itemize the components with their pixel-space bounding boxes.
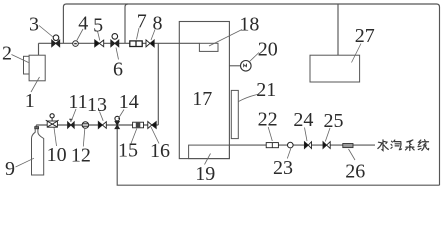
svg-text:2: 2 <box>2 42 12 64</box>
svg-text:17: 17 <box>192 88 212 110</box>
check valve 24 <box>304 142 311 149</box>
svg-text:23: 23 <box>273 157 293 179</box>
svg-text:20: 20 <box>258 39 278 61</box>
check valve 25 <box>323 142 330 149</box>
leader label 24 <box>305 128 308 142</box>
leader label 20 <box>249 53 259 63</box>
gas cylinder 9 <box>32 125 44 175</box>
svg-text:21: 21 <box>256 79 276 101</box>
apparatus 2 <box>24 56 32 74</box>
pressure gauge 20 <box>241 61 252 72</box>
leader label 14 <box>118 110 124 120</box>
svg-text:10: 10 <box>47 144 67 166</box>
condenser 27 <box>310 55 360 82</box>
valve 8 <box>146 40 154 47</box>
sight glass 4 <box>73 41 79 47</box>
label water-steam system <box>378 140 429 151</box>
leader label 25 <box>325 128 330 142</box>
wire stub from box 1 <box>38 43 40 55</box>
leader label 7 <box>137 28 140 40</box>
svg-text:15: 15 <box>118 139 138 161</box>
wire bottom return line <box>117 125 439 185</box>
glyph shui (water) <box>378 140 388 151</box>
svg-text:22: 22 <box>258 109 278 131</box>
svg-text:7: 7 <box>137 11 147 33</box>
flow element 22 <box>266 143 278 148</box>
svg-text:24: 24 <box>293 109 313 131</box>
svg-text:19: 19 <box>195 163 215 185</box>
leader label 27 <box>352 44 362 63</box>
svg-text:5: 5 <box>93 14 103 36</box>
leader label 15 <box>131 129 137 144</box>
leader label 9 <box>16 158 35 167</box>
valve 13 <box>98 122 106 129</box>
wire top vent bus <box>63 4 439 185</box>
svg-text:6: 6 <box>113 59 123 81</box>
wire riser joining top and bottom pipes <box>157 43 159 125</box>
sight glass 23 <box>288 142 294 148</box>
svg-text:12: 12 <box>71 144 91 166</box>
leader label 22 <box>268 127 272 141</box>
leader label 12 <box>83 129 85 147</box>
wire riser to bus near valve 6 <box>125 4 128 43</box>
svg-text:27: 27 <box>355 25 375 47</box>
svg-text:14: 14 <box>119 91 139 113</box>
leader label 4 <box>77 29 84 41</box>
reactor furnace 17 <box>179 22 229 159</box>
glyph qi (steam) <box>391 140 402 150</box>
svg-text:25: 25 <box>324 110 344 132</box>
wire top gas pipe <box>39 42 200 44</box>
leader label 10 <box>54 128 57 147</box>
leader label 1 <box>31 77 40 92</box>
wire to gauge 20 <box>229 65 240 67</box>
valve 3 <box>52 35 60 47</box>
valve 6 <box>111 34 119 47</box>
flow meter 12 <box>82 122 89 129</box>
leader label 11 <box>72 109 77 121</box>
svg-text:13: 13 <box>87 94 107 116</box>
valve 11 <box>68 119 75 128</box>
glyph tong (unify) <box>418 140 429 151</box>
svg-text:4: 4 <box>78 13 88 35</box>
leader label 2 <box>12 55 29 63</box>
wire outlet pipe to water-steam system <box>229 144 375 146</box>
leader label 16 <box>151 127 159 144</box>
valve 14 <box>115 116 120 128</box>
sample holder 18 <box>199 43 218 51</box>
leader label 8 <box>151 30 155 41</box>
svg-text:18: 18 <box>239 13 259 35</box>
leader label 6 <box>116 48 119 60</box>
leader label 19 <box>205 154 211 165</box>
svg-text:1: 1 <box>25 90 35 112</box>
glyph xi (system) <box>405 140 414 151</box>
pressure regulator 10 <box>46 114 59 127</box>
valve 16 <box>148 122 156 129</box>
apparatus 1 <box>29 55 45 81</box>
thermocouple 21 <box>231 90 238 138</box>
wire bottom gas pipe <box>36 124 158 126</box>
leader label 26 <box>349 149 356 160</box>
leader label 23 <box>287 149 291 159</box>
svg-text:9: 9 <box>5 158 15 180</box>
leader label 21 <box>239 95 258 102</box>
leader label 13 <box>100 112 104 121</box>
leader label 3 <box>39 26 53 38</box>
flow element 7 <box>130 41 142 47</box>
svg-text:26: 26 <box>345 160 365 182</box>
heater 19 <box>189 145 230 159</box>
svg-text:3: 3 <box>29 13 39 35</box>
leader label 5 <box>98 31 100 41</box>
svg-text:11: 11 <box>68 91 87 113</box>
wire drop to condenser 27 <box>337 4 339 55</box>
leader label 18 <box>209 30 242 47</box>
valve 5 <box>95 40 104 47</box>
svg-text:8: 8 <box>153 12 163 34</box>
sampling port 26 <box>343 144 353 148</box>
svg-text:16: 16 <box>150 140 170 162</box>
filter 15 <box>133 122 144 128</box>
